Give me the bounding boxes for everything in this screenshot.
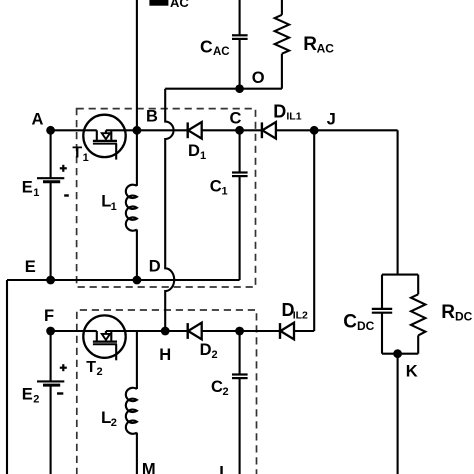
- svg-text:1: 1: [222, 186, 228, 198]
- svg-text:C: C: [211, 378, 223, 396]
- svg-text:C: C: [343, 312, 357, 333]
- svg-text:2: 2: [223, 386, 229, 398]
- svg-text:AC: AC: [317, 41, 335, 55]
- wire: DIL2 to J drop corner: [294, 330, 314, 332]
- svg-text:AC: AC: [170, 0, 189, 10]
- inductor L2: [101, 331, 137, 474]
- svg-text:E: E: [22, 179, 33, 197]
- wire: O line down to H with hops over B row and D row: [165, 89, 174, 331]
- transistor T2: [83, 315, 125, 360]
- wire: C to DIL1: [240, 129, 262, 131]
- capacitor C1: [210, 130, 248, 280]
- svg-text:O: O: [252, 69, 265, 87]
- svg-text:1: 1: [33, 187, 39, 199]
- diode D1: [188, 122, 202, 139]
- svg-text:1: 1: [83, 152, 89, 164]
- wire: T2 to H: [125, 330, 165, 332]
- node C: [230, 109, 245, 134]
- node J: [310, 111, 336, 135]
- wire: D1 to C: [202, 129, 240, 131]
- label T2: [86, 359, 102, 378]
- wire: B to D1: [137, 129, 188, 131]
- svg-text:2: 2: [33, 394, 39, 406]
- diode DIL1: [262, 122, 276, 139]
- svg-text:2: 2: [111, 417, 117, 429]
- svg-text:D: D: [200, 341, 212, 359]
- battery E1: [22, 130, 69, 280]
- node B: [133, 108, 159, 135]
- svg-text:DC: DC: [357, 319, 375, 333]
- diode DIL2: [280, 323, 294, 340]
- svg-text:C: C: [200, 37, 213, 57]
- wire: O row horizontal: [165, 88, 282, 90]
- svg-text:C: C: [230, 109, 242, 127]
- svg-text:2: 2: [212, 349, 218, 361]
- DC block: top rail: [382, 274, 418, 276]
- battery E2: [22, 331, 67, 474]
- DC block: bottom rail: [382, 353, 418, 355]
- wire: F to T2: [51, 330, 84, 332]
- node D: [133, 257, 161, 284]
- svg-text:H: H: [159, 346, 171, 364]
- svg-text:2: 2: [97, 366, 103, 378]
- source E_AC label (cropped at top edge): [149, 0, 189, 10]
- dashed box cell 1: [77, 109, 256, 287]
- svg-text:D: D: [149, 257, 161, 275]
- svg-text:IL2: IL2: [293, 309, 308, 321]
- svg-text:AC: AC: [213, 46, 230, 58]
- svg-text:R: R: [303, 34, 317, 55]
- svg-text:T: T: [72, 145, 82, 162]
- svg-text:I: I: [219, 464, 224, 474]
- wire: node B up to AC source (cropped at top): [136, 0, 138, 130]
- node K: [393, 349, 418, 380]
- svg-text:IL1: IL1: [286, 111, 301, 123]
- svg-text:D: D: [273, 101, 286, 121]
- wire: K down to bottom edge: [397, 354, 399, 474]
- svg-text:R: R: [441, 302, 455, 323]
- svg-text:DC: DC: [455, 310, 473, 324]
- wire: E row horizontal: [7, 279, 240, 281]
- wire: J down to DIL2 row: [313, 130, 315, 331]
- node A: [32, 111, 55, 135]
- capacitor C_AC: [200, 0, 248, 89]
- svg-text:B: B: [146, 108, 158, 126]
- wire: left return down to bottom edge: [6, 280, 8, 474]
- svg-text:C: C: [210, 178, 222, 196]
- capacitor C2: [211, 331, 248, 474]
- wire: H to D2: [165, 330, 188, 332]
- svg-text:1: 1: [200, 150, 206, 162]
- svg-text:T: T: [86, 359, 96, 376]
- diode D2: [188, 323, 202, 340]
- node F: [44, 307, 55, 335]
- svg-text:1: 1: [111, 201, 117, 213]
- svg-text:D: D: [188, 142, 200, 160]
- dashed box cell 2 (bottom open, extends past image): [77, 310, 257, 474]
- node H: [159, 327, 171, 364]
- svg-text:K: K: [406, 363, 418, 381]
- wire: DIL1 to J and on to right corner: [276, 129, 398, 131]
- node G (C2 top, unlabeled): [235, 327, 244, 336]
- wire: T1 to B: [125, 129, 137, 131]
- svg-text:A: A: [32, 111, 44, 129]
- node O: [235, 69, 264, 93]
- svg-text:E: E: [22, 385, 33, 403]
- svg-text:M: M: [142, 461, 156, 474]
- wire: A to T1: [51, 129, 84, 131]
- node E: [25, 258, 55, 285]
- svg-text:E: E: [25, 258, 36, 276]
- capacitor C_DC: [343, 275, 392, 354]
- wire: C2 node to DIL2: [240, 330, 280, 332]
- label T1: [72, 145, 88, 164]
- wire: D2 to C2 node: [202, 330, 240, 332]
- resistor R_AC: [275, 0, 335, 89]
- svg-text:J: J: [327, 111, 336, 129]
- svg-text:F: F: [44, 307, 54, 325]
- wire: right corner down to DC block: [397, 130, 399, 274]
- resistor R_DC: [411, 275, 473, 354]
- transistor T1: [83, 115, 125, 160]
- inductor L1: [101, 130, 137, 280]
